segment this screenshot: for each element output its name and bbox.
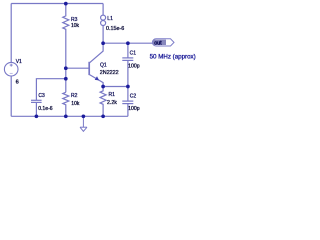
transistor Q1: [89, 43, 103, 86]
capacitor C2: [122, 87, 133, 117]
svg-text:R1: R1: [109, 92, 116, 98]
junction node collector / L1: [101, 41, 105, 45]
wire top rail: [11, 3, 103, 5]
svg-text:100p: 100p: [128, 64, 140, 70]
junction node emitter / C1-C2: [126, 85, 130, 89]
wire base node to Q1 base: [66, 67, 89, 69]
wire base node to C3: [36, 79, 65, 101]
svg-text:C1: C1: [130, 50, 137, 56]
resistor R2: [63, 92, 69, 116]
node out tag: [152, 39, 174, 47]
resistor R1: [100, 87, 106, 117]
capacitor C3: [31, 100, 42, 116]
inductor L1: [101, 4, 106, 44]
svg-text:R2: R2: [71, 93, 78, 99]
junction node collector / C1: [126, 41, 130, 45]
svg-text:Q1: Q1: [100, 62, 107, 68]
svg-text:0.1e-6: 0.1e-6: [38, 106, 53, 112]
svg-text:6: 6: [16, 80, 19, 86]
svg-text:100p: 100p: [128, 106, 140, 112]
wire bottom rail: [11, 115, 128, 117]
ground: [80, 116, 87, 131]
junction node emitter / R1: [101, 85, 105, 89]
wire emitter rail: [103, 86, 128, 88]
svg-text:50 MHz (approx): 50 MHz (approx): [150, 53, 196, 60]
svg-text:L1: L1: [107, 16, 113, 22]
wire left vertical (V1 bottom side): [10, 76, 12, 116]
svg-text:V1: V1: [16, 59, 22, 65]
svg-text:R3: R3: [71, 17, 78, 23]
svg-text:out: out: [154, 41, 162, 47]
junction node base upper: [64, 66, 68, 70]
wire collector node to out: [103, 42, 153, 44]
junction node bottom rail / R2: [64, 114, 68, 118]
junction node bottom rail / C3: [35, 114, 39, 118]
capacitor C1: [122, 43, 133, 86]
svg-text:C2: C2: [130, 94, 137, 100]
Q1 emitter arrowhead: [95, 76, 99, 80]
svg-text:10k: 10k: [71, 101, 80, 107]
wire left vertical (V1 top side): [10, 4, 12, 63]
svg-text:2.2k: 2.2k: [107, 100, 117, 106]
svg-text:10k: 10k: [71, 23, 80, 29]
junction node base lower / C3: [64, 77, 68, 81]
junction node bottom rail / R1: [101, 114, 105, 118]
svg-text:0.15e-6: 0.15e-6: [106, 26, 124, 32]
resistor R3: [63, 4, 69, 93]
junction node bottom rail / ground: [82, 114, 86, 118]
svg-text:C3: C3: [38, 93, 45, 99]
svg-text:2N2222: 2N2222: [100, 70, 119, 76]
voltage source V1: [4, 62, 18, 76]
junction node top rail / R3: [64, 2, 68, 6]
